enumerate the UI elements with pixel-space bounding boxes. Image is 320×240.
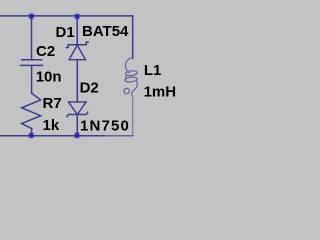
- wire D2 to bottom rail: [76, 115, 78, 136]
- svg-text:L1: L1: [144, 62, 162, 79]
- diode D2 zener (triangle + bent bar): [67, 102, 88, 117]
- resistor R7: [22, 93, 41, 128]
- svg-text:1mH: 1mH: [144, 83, 177, 100]
- svg-text:R7: R7: [43, 95, 62, 112]
- svg-text:10n: 10n: [36, 69, 62, 86]
- svg-text:BAT54: BAT54: [82, 23, 129, 40]
- capacitor C2: [21, 60, 43, 66]
- wire top to diode D1: [76, 16, 78, 45]
- svg-text:D1: D1: [56, 24, 75, 41]
- junction node top-mid: [75, 14, 80, 19]
- wire capacitor to resistor: [31, 65, 33, 93]
- junction node top-left: [29, 14, 34, 19]
- inductor L1 coil: [124, 58, 138, 97]
- diode D1 schottky (cathode bar with hooks): [66, 42, 88, 60]
- svg-text:1k: 1k: [43, 117, 60, 134]
- svg-text:1N750: 1N750: [80, 118, 130, 135]
- wire top to capacitor C2: [31, 16, 33, 60]
- wire top rail: [0, 15, 133, 17]
- wire D1 to D2: [76, 60, 78, 102]
- junction node bottom-left: [29, 133, 34, 138]
- junction node bottom-mid: [75, 133, 80, 138]
- svg-text:C2: C2: [36, 43, 55, 60]
- svg-text:D2: D2: [80, 80, 99, 97]
- wire bottom rail: [0, 135, 104, 137]
- wire inductor to bottom rail: [132, 97, 134, 136]
- wire resistor to bottom rail: [31, 129, 33, 136]
- wire bottom rail right segment: [104, 135, 133, 137]
- wire right vertical to inductor: [132, 16, 134, 58]
